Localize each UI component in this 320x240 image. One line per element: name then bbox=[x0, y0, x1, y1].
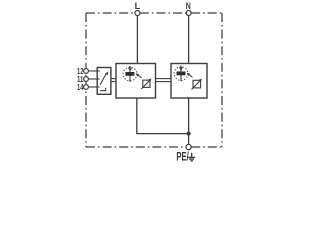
switch lever (arrow) bbox=[100, 74, 106, 85]
node N terminal bbox=[186, 11, 191, 16]
wire N drop bbox=[188, 16, 190, 64]
module 1 actuation arrow bbox=[136, 73, 142, 78]
wire module1 bottom to PE bus bbox=[137, 98, 189, 134]
mechanical link module 1 to module 2 (double line) bbox=[156, 79, 172, 82]
module 1 varistor lead bbox=[129, 66, 131, 82]
node PE terminal bbox=[186, 144, 191, 149]
module 2 varistor lead bbox=[180, 66, 182, 82]
module 1 disconnection arrow (diagonal) bbox=[141, 79, 151, 90]
enclosure outline (dash-dot border) bbox=[86, 13, 222, 147]
module 2 disconnect arrowhead (down) bbox=[179, 67, 183, 71]
module 2 actuation arrow bbox=[187, 73, 193, 78]
svg-text:PE/: PE/ bbox=[176, 151, 189, 164]
svg-text:L: L bbox=[135, 1, 141, 11]
module 2 varistor block bbox=[177, 72, 186, 76]
ground symbol bbox=[188, 153, 195, 161]
svg-text:14: 14 bbox=[77, 82, 84, 92]
mechanical link switch to module 1 (double line) bbox=[112, 79, 116, 82]
wire module2 bottom to PE terminal bbox=[188, 98, 190, 145]
node terminal 12 (FM contact) bbox=[84, 69, 89, 74]
wire L drop bbox=[136, 16, 138, 64]
module 2 thermal monitoring circle (dashed) bbox=[174, 67, 188, 81]
NO contact 14 bbox=[100, 88, 105, 91]
module 1 thermal monitoring circle (dashed) bbox=[123, 67, 137, 81]
module 2 disconnection device (square) bbox=[193, 80, 201, 88]
junction dot (N-PE bus) bbox=[187, 132, 191, 136]
SPD module 1 box (L path) bbox=[116, 64, 156, 99]
module 1 varistor block bbox=[125, 72, 134, 76]
svg-text:N: N bbox=[186, 1, 191, 11]
module 2 disconnection arrow (diagonal) bbox=[192, 79, 203, 90]
node L terminal bbox=[135, 11, 140, 16]
remote signalling changeover contact FM (switch box) bbox=[97, 68, 111, 95]
wire terminal 12 to switch bbox=[89, 70, 100, 72]
module 1 disconnection device (square) bbox=[143, 80, 150, 87]
SPD module 2 box (N path) bbox=[171, 64, 207, 99]
wire terminal 11 to switch bbox=[89, 78, 100, 80]
module 1 disconnect arrowhead (down) bbox=[128, 68, 132, 72]
wire terminal 14 to switch bbox=[89, 86, 100, 88]
node terminal 14 (FM contact) bbox=[84, 85, 89, 90]
node terminal 11 (FM contact) bbox=[84, 77, 89, 82]
